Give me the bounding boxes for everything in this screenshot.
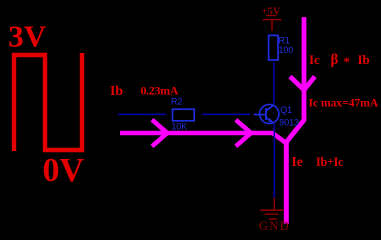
svg-text:10K: 10K: [172, 122, 188, 132]
power symbol crossbar: [263, 19, 282, 21]
transistor Q1 base bar: [265, 108, 267, 120]
wire base input wire left segment: [118, 113, 166, 115]
svg-text:Ic max=47mA: Ic max=47mA: [309, 95, 379, 109]
wire base input wire right segment: [202, 113, 250, 115]
svg-text:GND: GND: [259, 219, 290, 233]
svg-text:*: *: [344, 54, 351, 69]
wire emitter wire (Q1 to GND) blue part: [273, 124, 275, 198]
svg-text:Ie: Ie: [292, 154, 303, 169]
current arrow Ib (base current path): [120, 133, 286, 143]
transistor Q1 circle: [260, 104, 279, 123]
svg-text:Ib: Ib: [110, 83, 123, 98]
current arrow Ie (emitter current path): [284, 141, 289, 224]
svg-text:Q1: Q1: [280, 105, 292, 115]
svg-text:β: β: [331, 52, 339, 68]
arrowhead 1 on Ib path: [152, 120, 167, 147]
transistor Q1 base lead: [253, 114, 266, 116]
svg-text:9013: 9013: [279, 117, 299, 127]
svg-text:3V: 3V: [8, 19, 47, 54]
svg-text:Ib+Ic: Ib+Ic: [316, 155, 344, 169]
power symbol stem: [271, 20, 273, 31]
wire emitter wire maroon part: [273, 198, 275, 210]
transistor Q1 emitter lead: [266, 117, 274, 123]
svg-text:0.23mA: 0.23mA: [141, 84, 179, 98]
wire collector wire (R1 to Q1): [273, 62, 275, 104]
transistor Q1 emitter arrow: [268, 118, 273, 122]
svg-text:R2: R2: [171, 97, 182, 107]
ground bar 1: [260, 209, 283, 211]
svg-text:0V: 0V: [43, 152, 85, 189]
wire square-wave input waveform: [14, 53, 82, 151]
current arrow Ic (collector current path): [286, 17, 304, 143]
resistor R2: [173, 109, 195, 121]
transistor Q1 collector lead: [266, 105, 274, 111]
power +5V underline: [266, 15, 277, 17]
svg-text:Ic: Ic: [309, 52, 320, 67]
svg-text:Ib: Ib: [358, 52, 370, 67]
ground bar 3: [269, 218, 277, 220]
arrowhead on Ic path: [290, 77, 315, 91]
ground bar 2: [265, 213, 279, 215]
resistor R1: [269, 35, 278, 60]
arrowhead 2 on Ib path: [236, 120, 251, 147]
svg-text:100: 100: [279, 45, 294, 55]
